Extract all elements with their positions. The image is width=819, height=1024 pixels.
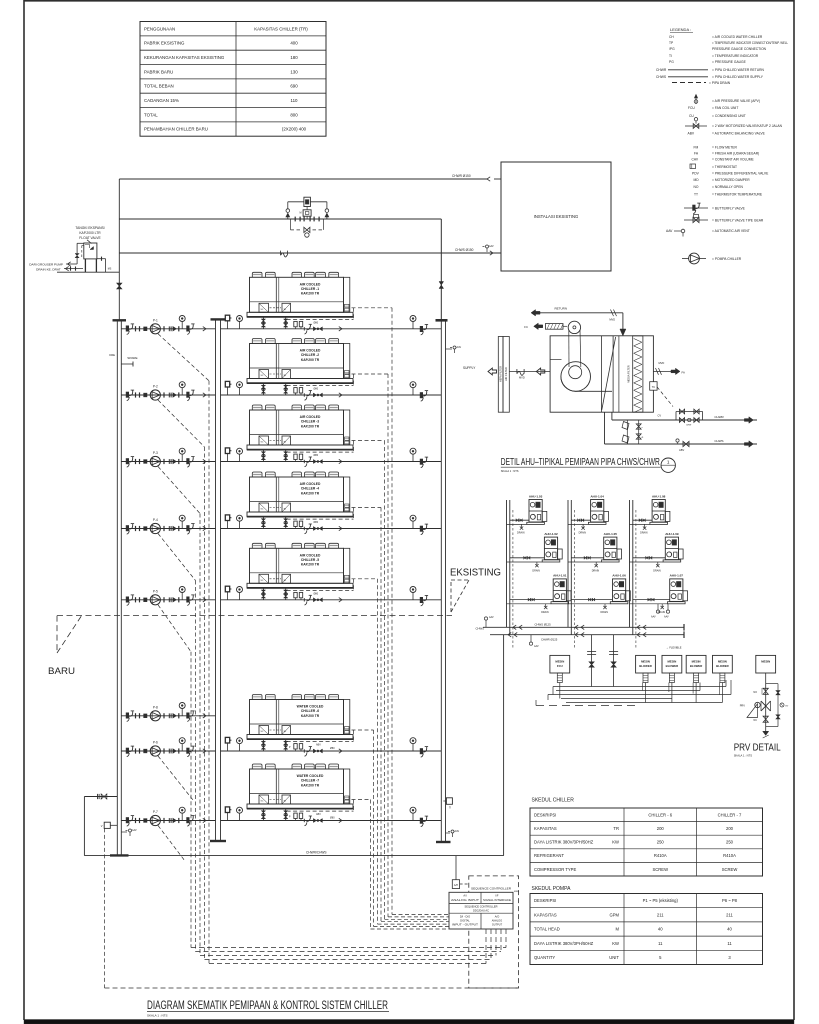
svg-text:SKALA 1 : NTS: SKALA 1 : NTS	[147, 1014, 168, 1018]
mesin box 712	[713, 655, 733, 682]
svg-text:ANALOG: ANALOG	[492, 920, 502, 923]
svg-text:DRAIN: DRAIN	[601, 611, 609, 614]
svg-text:AHU-1.07: AHU-1.07	[670, 574, 684, 578]
svg-text:ABV: ABV	[679, 448, 684, 452]
drain lines from chillers	[287, 308, 449, 929]
svg-text:DRAIN KE. DRAT: DRAIN KE. DRAT	[36, 268, 61, 272]
svg-text:AHU-1.03: AHU-1.03	[529, 494, 543, 498]
svg-text:TOTAL HEAD: TOTAL HEAD	[534, 927, 560, 932]
svg-text:MVD: MVD	[609, 318, 615, 322]
svg-text:DRAIN: DRAIN	[640, 532, 648, 535]
svg-text:SPARE: SPARE	[127, 356, 137, 360]
svg-text:CHILLER - 7: CHILLER - 7	[718, 812, 742, 817]
pipe chws main eksisting	[475, 623, 684, 631]
svg-text:SKEDUL POMPA: SKEDUL POMPA	[532, 886, 572, 892]
svg-text:690: 690	[290, 84, 298, 89]
svg-text:TI: TI	[449, 807, 451, 810]
svg-text:P-7: P-7	[153, 810, 158, 814]
ahu unit AHU-1.04	[568, 494, 608, 534]
pipe chiller row 5	[221, 586, 442, 606]
svg-text:= PRESSURE GAUGE: = PRESSURE GAUGE	[712, 60, 747, 64]
svg-text:COMPRESSOR TYPE: COMPRESSOR TYPE	[534, 867, 576, 872]
svg-text:OUTPUT: OUTPUT	[492, 924, 503, 927]
spare stub	[121, 356, 137, 367]
svg-text:40: 40	[727, 927, 732, 932]
svg-text:INSTALASI EKSISTING: INSTALASI EKSISTING	[534, 214, 579, 219]
svg-text:MVD: MVD	[519, 376, 525, 380]
svg-text:AHU-1.01: AHU-1.01	[553, 574, 567, 578]
svg-text:PRESSURE GAUGE CONNECTION: PRESSURE GAUGE CONNECTION	[712, 47, 767, 51]
ahu two way valve group	[676, 409, 703, 426]
svg-text:FCU: FCU	[557, 664, 563, 668]
pump P-2	[121, 382, 215, 401]
svg-text:UNIT: UNIT	[609, 955, 619, 960]
bypass line bottom left	[84, 794, 117, 856]
svg-text:AHU-1.06: AHU-1.06	[612, 574, 626, 578]
svg-text:CHWR/CHWS: CHWR/CHWS	[306, 850, 327, 854]
svg-text:DRAIN: DRAIN	[653, 569, 661, 572]
svg-text:FC: FC	[524, 325, 528, 329]
svg-text:TANGKI EKSPANSI: TANGKI EKSPANSI	[75, 226, 104, 230]
pipe chiller row 6	[221, 737, 442, 757]
control bus bottom dashed	[105, 929, 519, 988]
pipe chiller row 7	[221, 807, 442, 827]
svg-text:KAP.200 TR: KAP.200 TR	[301, 491, 320, 495]
svg-text:KAP.2000 LTR: KAP.2000 LTR	[79, 231, 101, 235]
baru eksisting boundary	[48, 616, 452, 677]
chiller CH-7	[247, 764, 353, 821]
svg-text:DIAGRAM SKEMATIK PEMIPAAN & KO: DIAGRAM SKEMATIK PEMIPAAN & KONTROL SIST…	[147, 1000, 388, 1012]
svg-text:AAV: AAV	[457, 346, 462, 349]
svg-text:MS: MS	[108, 269, 112, 271]
svg-text:P-5: P-5	[153, 589, 158, 593]
pump P-7	[121, 807, 215, 826]
svg-text:AIR FILTER: AIR FILTER	[504, 367, 508, 381]
pipe chwr chws bottom main	[84, 635, 503, 856]
svg-text:QUANTITY: QUANTITY	[534, 955, 555, 960]
svg-text:AAV: AAV	[534, 645, 539, 648]
svg-text:TOTAL BEBAN: TOTAL BEBAN	[144, 84, 174, 89]
svg-text:P-3: P-3	[153, 451, 158, 455]
svg-text:= TEMPERATURE INDICATOR: = TEMPERATURE INDICATOR	[712, 54, 759, 58]
ahu unit AHU-1.01	[507, 574, 572, 614]
svg-text:PENGGUNAAN: PENGGUNAAN	[144, 26, 175, 31]
svg-text:MEDIA FILTER: MEDIA FILTER	[627, 365, 631, 383]
ahu riser pipes	[507, 500, 636, 648]
svg-text:CHWR: CHWR	[656, 68, 667, 72]
svg-text:SC: SC	[261, 731, 264, 733]
svg-text:= AUTOMATIC AIR VENT: = AUTOMATIC AIR VENT	[712, 229, 750, 233]
pump P-3	[121, 448, 215, 467]
ahu detail title	[501, 457, 676, 473]
ahu detail unit	[488, 321, 653, 412]
svg-text:400: 400	[290, 41, 298, 46]
svg-text:DRAIN: DRAIN	[541, 611, 549, 614]
svg-text:KAP.200 TR: KAP.200 TR	[301, 358, 320, 362]
svg-text:40: 40	[658, 927, 663, 932]
svg-text:AIR COOLED: AIR COOLED	[300, 415, 321, 419]
svg-text:= PRESSURE DIFFERENTIAL VALVE: = PRESSURE DIFFERENTIAL VALVE	[712, 172, 769, 176]
valve right header	[439, 282, 444, 289]
svg-text:NO: NO	[694, 185, 699, 189]
svg-text:DESKRIPSI: DESKRIPSI	[534, 812, 556, 817]
svg-text:= AIR COOLED WATER CHILLER: = AIR COOLED WATER CHILLER	[712, 35, 763, 39]
svg-text:= NORMALLY OPEN: = NORMALLY OPEN	[712, 185, 744, 189]
pump P-8 spare	[121, 703, 215, 722]
svg-text:= FRESH AIR (UDARA SEGAR): = FRESH AIR (UDARA SEGAR)	[712, 152, 759, 156]
svg-text:KAP.200 TR: KAP.200 TR	[301, 714, 320, 718]
svg-text:= THERMOSTAT: = THERMOSTAT	[712, 165, 737, 169]
ahu return duct line	[531, 307, 626, 336]
svg-text:D/I - D/O: D/I - D/O	[460, 915, 470, 919]
schedule pompa table	[530, 886, 763, 965]
svg-text:Ø80: Ø80	[330, 747, 335, 750]
svg-text:→ FLEXIBLE: → FLEXIBLE	[666, 646, 682, 650]
svg-text:INPUT - OUTPUT: INPUT - OUTPUT	[452, 924, 479, 927]
svg-text:SUPPLY: SUPPLY	[463, 366, 476, 370]
svg-text:110: 110	[291, 98, 299, 103]
svg-text:SC: SC	[261, 309, 264, 311]
svg-text:AAV: AAV	[664, 616, 669, 619]
svg-text:DDC/DAU AC: DDC/DAU AC	[473, 909, 489, 913]
svg-text:DRAIN: DRAIN	[579, 532, 587, 535]
svg-text:AHU-1.05: AHU-1.05	[604, 532, 618, 536]
svg-text:CHILLER -3: CHILLER -3	[301, 420, 319, 424]
svg-text:R410A: R410A	[723, 853, 736, 858]
aav left header bottom	[121, 829, 137, 836]
svg-text:ABV: ABV	[316, 813, 321, 816]
svg-text:DAYA LISTRIK 380V/3PH/50HZ: DAYA LISTRIK 380V/3PH/50HZ	[534, 840, 594, 845]
svg-text:180: 180	[290, 55, 298, 60]
svg-text:CHILLER -2: CHILLER -2	[301, 353, 319, 357]
ahu unit AHU-1.09	[630, 532, 684, 572]
right supply header pipe	[436, 219, 477, 842]
svg-text:800: 800	[290, 112, 298, 117]
ahu unit AHU-1.07	[630, 574, 688, 614]
ah sensor box	[452, 856, 469, 889]
svg-text:= MOTORIZED DAMPER: = MOTORIZED DAMPER	[712, 178, 750, 182]
pipe chiller row 2	[221, 381, 442, 401]
svg-text:211: 211	[657, 912, 664, 917]
title diagram skematik	[147, 1000, 389, 1018]
svg-text:CHILLER -7: CHILLER -7	[301, 779, 319, 783]
ahu unit AHU-1.06	[568, 574, 630, 614]
svg-text:SCREW: SCREW	[722, 867, 738, 872]
svg-text:KW: KW	[612, 840, 619, 845]
ahu chwr piping	[612, 412, 757, 423]
svg-text:A/I: A/I	[463, 894, 466, 898]
svg-text:KRE: KRE	[109, 353, 115, 357]
thermostat tc	[650, 382, 673, 407]
svg-text:CHILLER -4: CHILLER -4	[301, 487, 319, 491]
svg-text:= BUTTERFLY VALVE TIPE GEAR: = BUTTERFLY VALVE TIPE GEAR	[712, 218, 764, 222]
ahu unit AHU-1.03	[507, 494, 547, 534]
svg-text:HEPA FILTER: HEPA FILTER	[499, 366, 503, 382]
svg-text:MVD: MVD	[659, 361, 665, 365]
svg-text:ABV: ABV	[688, 132, 695, 136]
svg-text:= AIR PRESSURE VALVE (APV): = AIR PRESSURE VALVE (APV)	[712, 99, 760, 103]
svg-text:TC: TC	[652, 386, 656, 389]
svg-text:SC: SC	[261, 375, 264, 377]
svg-text:BLOWER: BLOWER	[639, 664, 651, 668]
aav near ahu-1.07	[651, 604, 670, 619]
svg-text:= POMPA CHILLER: = POMPA CHILLER	[712, 257, 742, 261]
eksisting label	[450, 567, 501, 613]
drain lines from pumps	[158, 334, 209, 964]
svg-text:= THERMISTOR TEMPERATURE: = THERMISTOR TEMPERATURE	[712, 193, 763, 197]
svg-text:SCREW: SCREW	[652, 867, 668, 872]
svg-text:Ø80: Ø80	[330, 817, 335, 820]
svg-text:AAV: AAV	[132, 829, 137, 832]
svg-text:FM: FM	[694, 146, 699, 150]
svg-text:/PG: /PG	[669, 47, 675, 51]
aav chws main left	[484, 616, 494, 627]
svg-text:= PIPA CHILLED WATER SUPPLY: = PIPA CHILLED WATER SUPPLY	[712, 75, 764, 79]
mesin box 636	[636, 655, 656, 682]
svg-text:= AUTOMATIC BALANCING VALVE: = AUTOMATIC BALANCING VALVE	[712, 132, 766, 136]
chiller CH-6	[247, 695, 353, 752]
svg-text:AIR COOLED: AIR COOLED	[300, 482, 321, 486]
svg-text:KAPASITAS: KAPASITAS	[534, 826, 557, 831]
svg-text:DETIL AHU–TIPIKAL PEMIPAAN PIP: DETIL AHU–TIPIKAL PEMIPAAN PIPA CHWS/CHW…	[501, 457, 660, 468]
pressure sensor row 8	[101, 822, 118, 988]
mesin box 550	[550, 655, 570, 682]
svg-text:M: M	[616, 927, 620, 932]
svg-text:V: V	[101, 824, 103, 828]
ahu unit AHU-1.08	[630, 494, 670, 534]
svg-text:KAP.200 TR: KAP.200 TR	[301, 563, 320, 567]
mid header pipe	[210, 319, 226, 841]
svg-text:MD: MD	[694, 178, 700, 182]
control bus mesin	[536, 680, 731, 706]
svg-text:CV: CV	[658, 414, 662, 418]
pipe chiller row 3	[221, 448, 442, 468]
svg-text:BLOWER: BLOWER	[666, 664, 678, 668]
svg-text:KAP.200 TR: KAP.200 TR	[301, 292, 320, 296]
svg-text:TR: TR	[613, 826, 619, 831]
svg-text:SKALA 1 : NTS: SKALA 1 : NTS	[734, 754, 753, 758]
svg-text:SEQUENCE CONTROLLER: SEQUENCE CONTROLLER	[464, 905, 497, 909]
svg-text:CHWR Ø125: CHWR Ø125	[541, 638, 558, 642]
svg-text:= CONSTANT AIR VOLUME: = CONSTANT AIR VOLUME	[712, 158, 755, 162]
svg-text:= FLOW METER: = FLOW METER	[712, 146, 737, 150]
svg-text:R410A: R410A	[654, 853, 667, 858]
pump P-4	[121, 515, 215, 534]
svg-text:CHWR: CHWR	[714, 415, 724, 419]
svg-text:P-1: P-1	[153, 318, 158, 322]
svg-text:REFRIGERANT: REFRIGERANT	[534, 853, 564, 858]
sensor right header	[443, 798, 452, 810]
svg-text:AHU-1.02: AHU-1.02	[544, 532, 558, 536]
svg-text:GPM: GPM	[609, 912, 619, 917]
pipe chwr top line	[119, 174, 501, 181]
svg-text:130: 130	[290, 69, 298, 74]
svg-text:= CONDENSING UNIT: = CONDENSING UNIT	[712, 114, 746, 118]
left header pipe	[109, 320, 128, 855]
svg-text:CHWS: CHWS	[475, 627, 484, 631]
pump P-6	[121, 738, 215, 757]
risers to mesin	[587, 635, 618, 687]
svg-text:CHILLER -1: CHILLER -1	[301, 287, 319, 291]
svg-text:(2X200) 400: (2X200) 400	[282, 127, 307, 132]
svg-text:AAV: AAV	[489, 616, 494, 619]
flow meter bypass group	[286, 197, 329, 237]
mesin box 756	[756, 655, 776, 673]
svg-text:DESKRIPSI: DESKRIPSI	[534, 898, 556, 903]
chiller CH-5	[247, 543, 353, 600]
svg-text:PDV: PDV	[692, 172, 700, 176]
svg-text:FA: FA	[682, 371, 686, 375]
svg-text:BLOWER: BLOWER	[690, 664, 702, 668]
svg-text:CH: CH	[669, 35, 674, 39]
svg-text:AAV: AAV	[666, 229, 673, 233]
svg-text:NO: NO	[753, 691, 757, 694]
svg-text:AAV: AAV	[651, 616, 656, 619]
mesin box 686	[686, 655, 706, 682]
svg-text:Ø: Ø	[642, 437, 644, 439]
svg-text:PG: PG	[669, 60, 674, 64]
svg-text:MESIN: MESIN	[761, 660, 770, 664]
svg-text:CADANGAN 15%: CADANGAN 15%	[144, 98, 179, 103]
svg-text:CHWS: CHWS	[714, 439, 723, 443]
aav below chws main	[529, 635, 539, 648]
svg-text:EKSISTING: EKSISTING	[450, 567, 501, 579]
ahu fc drive	[524, 323, 567, 329]
svg-text:SKEDUL CHILLER: SKEDUL CHILLER	[532, 798, 575, 804]
svg-text:SKALA 1 : NTS: SKALA 1 : NTS	[501, 469, 519, 473]
pump P-5	[121, 587, 215, 606]
svg-text:P-6: P-6	[153, 741, 158, 745]
aav right header bottom	[446, 830, 460, 837]
pipe chiller row 1	[221, 315, 442, 335]
svg-text:CHWS: CHWS	[656, 75, 667, 79]
svg-text:= BUTTERFLY VALVE: = BUTTERFLY VALVE	[712, 206, 746, 210]
svg-text:P-8: P-8	[153, 705, 158, 709]
svg-text:CU: CU	[689, 114, 694, 118]
instalasi eksisting box	[501, 162, 611, 271]
svg-text:= 2 WAY MOTORIZED VALVE/KATUP: = 2 WAY MOTORIZED VALVE/KATUP 2 JALAN	[712, 124, 783, 128]
svg-text:Ø80: Ø80	[314, 321, 319, 324]
svg-text:GV: GV	[785, 706, 789, 708]
svg-text:BLOWER: BLOWER	[716, 664, 728, 668]
svg-text:= FAN COIL UNIT: = FAN COIL UNIT	[712, 106, 738, 110]
svg-text:11: 11	[658, 941, 663, 946]
prv detail title	[734, 743, 781, 758]
svg-text:P-4: P-4	[153, 518, 158, 522]
chiller CH-1	[247, 272, 353, 329]
svg-text:PABRIK BARU: PABRIK BARU	[144, 69, 173, 74]
ahu unit AHU-1.02	[507, 532, 563, 572]
sequence controller	[449, 876, 519, 988]
svg-text:SIGNAL INTERFACE: SIGNAL INTERFACE	[483, 899, 511, 902]
ahu unit AHU-1.05	[568, 532, 622, 572]
svg-text:I/F: I/F	[495, 894, 498, 898]
svg-text:SEQUENCE CONTROLLER: SEQUENCE CONTROLLER	[471, 887, 512, 891]
pipe chwr return line to header	[119, 218, 441, 220]
svg-text:KAPASITAS: KAPASITAS	[534, 912, 557, 917]
svg-text:Ø80: Ø80	[314, 388, 319, 391]
svg-text:250: 250	[657, 840, 665, 845]
svg-text:PRV: PRV	[740, 704, 746, 708]
svg-text:SC: SC	[261, 801, 264, 803]
svg-text:DRAIN: DRAIN	[592, 569, 600, 572]
svg-text:200: 200	[657, 826, 665, 831]
pump P-1	[121, 316, 215, 335]
svg-text:DARI GROUSER PUMP: DARI GROUSER PUMP	[29, 263, 63, 267]
svg-text:KW: KW	[612, 941, 619, 946]
chiller CH-3	[247, 405, 353, 462]
svg-text:TI: TI	[669, 54, 672, 58]
svg-text:DIGITAL: DIGITAL	[460, 920, 470, 923]
svg-text:A/H: A/H	[454, 884, 458, 887]
schedule chiller table	[530, 798, 763, 877]
mesin box 662	[662, 655, 682, 682]
svg-text:SC: SC	[261, 509, 264, 511]
svg-text:CHILLER -5: CHILLER -5	[301, 558, 319, 562]
svg-text:200: 200	[726, 826, 734, 831]
svg-text:A/O: A/O	[495, 915, 499, 919]
svg-text:AHU-1.04: AHU-1.04	[591, 494, 605, 498]
svg-text:SC: SC	[261, 580, 264, 582]
svg-text:= TEMPERATURE INDICATOR CONNEC: = TEMPERATURE INDICATOR CONNECTION/TEMP.…	[712, 41, 788, 45]
ahu fresh air branch	[653, 361, 685, 375]
svg-text:AIR COOLED: AIR COOLED	[300, 282, 321, 286]
svg-text:P6 ~ P8: P6 ~ P8	[722, 898, 738, 903]
aav right header upper	[446, 346, 462, 353]
pipe chiller row 4	[221, 515, 442, 535]
pipe chws line to instalasi	[119, 248, 501, 257]
svg-text:AAV: AAV	[455, 830, 460, 833]
svg-text:MKR: MKR	[514, 891, 519, 893]
legend	[656, 27, 788, 264]
svg-text:NC: NC	[754, 719, 758, 722]
svg-text:CHWR Ø150: CHWR Ø150	[452, 174, 471, 178]
svg-text:WATER COOLED: WATER COOLED	[297, 774, 324, 778]
svg-text:CAV: CAV	[692, 158, 699, 162]
svg-text:1: 1	[667, 460, 670, 465]
svg-text:KAPASITAS CHILLER (TR): KAPASITAS CHILLER (TR)	[254, 26, 308, 31]
svg-text:PRV DETAIL: PRV DETAIL	[734, 743, 781, 754]
svg-text:KEKURANGAN KAPASITAS EKSISTING: KEKURANGAN KAPASITAS EKSISTING	[144, 55, 225, 60]
svg-text:P1 ~ P5 (eksisting): P1 ~ P5 (eksisting)	[643, 898, 679, 903]
chiller CH-2	[247, 339, 353, 396]
svg-text:RETURN: RETURN	[555, 307, 568, 311]
svg-text:FLOAT VALVE: FLOAT VALVE	[79, 236, 101, 240]
svg-text:CHILLER -6: CHILLER -6	[301, 709, 319, 713]
svg-text:M: M	[300, 212, 302, 215]
svg-text:LEGENDA :: LEGENDA :	[670, 27, 691, 32]
svg-text:DRAIN: DRAIN	[517, 532, 525, 535]
svg-text:AHU-1.09: AHU-1.09	[665, 532, 679, 536]
chiller CH-4	[247, 472, 353, 529]
svg-text:Ø80: Ø80	[314, 454, 319, 457]
svg-text:BARU: BARU	[48, 666, 75, 677]
svg-text:Ø80: Ø80	[314, 521, 319, 524]
left riser pipe top	[117, 179, 122, 321]
svg-text:CHWS Ø150: CHWS Ø150	[455, 248, 474, 252]
svg-text:KAP.200 TR: KAP.200 TR	[301, 424, 320, 428]
svg-text:DRAIN: DRAIN	[532, 569, 540, 572]
svg-text:AHU-1.08: AHU-1.08	[652, 494, 666, 498]
svg-text:250: 250	[726, 840, 734, 845]
svg-text:211: 211	[726, 912, 733, 917]
pipe chwr main eksisting	[490, 631, 684, 649]
svg-text:DAYA LISTRIK 380V/3PH/50HZ: DAYA LISTRIK 380V/3PH/50HZ	[534, 941, 594, 946]
svg-text:11: 11	[727, 941, 732, 946]
svg-text:Ø80: Ø80	[314, 592, 319, 595]
ahu strainers and bypass valves	[622, 420, 644, 444]
svg-text:TOTAL: TOTAL	[144, 112, 158, 117]
